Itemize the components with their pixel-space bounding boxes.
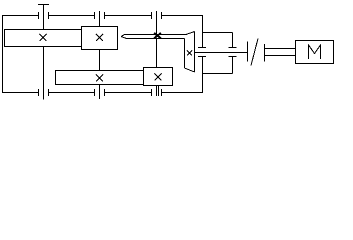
gear Z1 on shaft A [5,30,82,47]
gear Z3 on shaft B [56,71,144,85]
housing right wall [202,15,204,93]
shaft C lower end [157,86,159,97]
gear Z2 hub cross [96,34,103,41]
shaft C top bearing [152,12,162,19]
bearing bracket bottom [203,73,233,75]
bevel gear on shaft C (flat) [121,32,195,39]
shaft C bottom bearing [152,89,162,96]
bearing feet on wall [198,48,206,57]
gear Z3 hub cross [96,75,103,82]
coupling [248,39,265,66]
shaft A cap [38,4,49,6]
bevel pinion on motor shaft [185,32,195,73]
shaft B top bearing [95,12,105,19]
shaft B [99,11,101,99]
bevel pinion cross [187,51,192,56]
gear Z2 on shaft B [82,27,118,50]
shaft C [156,11,158,68]
housing left wall [2,15,4,93]
shaft A top bearing [39,12,49,19]
housing top line [2,15,203,17]
horizontal shaft [195,52,248,54]
bevel gear C cross [154,33,161,39]
gear Z4 on shaft C [144,68,173,86]
gear Z1 hub cross [40,34,47,41]
shaft A [43,5,45,100]
bearing bracket top [203,32,233,34]
housing bottom line [2,92,203,94]
shaft B bottom bearing [95,89,105,96]
motor letter M [309,45,321,59]
motor shaft double line [265,49,296,56]
shaft A bottom bearing [39,89,49,96]
motor body [296,41,334,64]
outer bearing pedestal [229,33,237,74]
gear Z4 hub cross [155,74,162,81]
